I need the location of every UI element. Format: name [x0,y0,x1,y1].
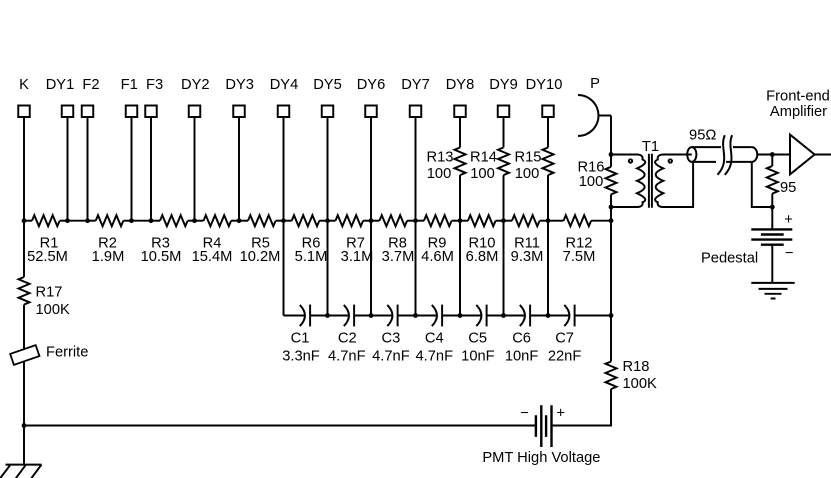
junction F3/bus [149,218,154,223]
node DY3 (PMT pin) [225,77,254,117]
node DY1 (PMT pin) [46,77,75,117]
T1 polarity dot secondary [669,159,672,162]
svg-text:100: 100 [579,174,604,190]
junction: amplifier input [770,152,775,157]
svg-text:DY9: DY9 [489,77,518,93]
wire DY4 to bus and capacitor row [283,117,285,316]
node K (PMT pin) [18,77,30,117]
capacitor C6 10nF [504,305,549,365]
earth ground (pedestal) [751,283,794,299]
svg-text:Front-end: Front-end [766,89,830,105]
svg-text:C3: C3 [382,331,401,347]
coax break marks [718,135,733,175]
svg-text:100: 100 [470,166,495,182]
svg-text:R13: R13 [427,149,454,165]
svg-text:DY4: DY4 [270,77,299,93]
svg-text:DY7: DY7 [401,77,430,93]
op-amp U1 front-end amplifier [766,89,830,175]
svg-text:+: + [556,406,565,422]
svg-text:22nF: 22nF [548,348,582,364]
node DY10 (PMT pin) [526,77,563,117]
node F3 (PMT pin) [145,77,163,117]
svg-text:5.1M: 5.1M [295,249,328,265]
resistor R4 15.4M [192,215,239,265]
wire coax center to amplifier [757,154,790,156]
resistor 95 [767,155,797,208]
wire R14 to bus and capacitor row [503,175,505,315]
coax cable body [687,147,757,162]
junction capacitor row x=371 [369,313,374,318]
svg-text:F2: F2 [82,77,99,93]
junction: R16/T1 top [609,152,614,157]
resistor R13 100 [427,148,466,182]
svg-text:R17: R17 [36,285,63,301]
junction F1/bus [129,218,134,223]
junction capacitor row x=548 [546,313,551,318]
svg-text:F3: F3 [146,77,163,93]
resistor R12 7.5M [548,215,611,265]
resistor R6 5.1M [284,215,328,265]
svg-text:Amplifier: Amplifier [770,104,827,120]
resistor R16 100 [578,159,617,194]
T1 polarity dot primary [629,159,632,162]
svg-text:Pedestal: Pedestal [701,251,758,267]
wire to chassis ground [23,426,25,465]
junction DY7/bus [413,218,418,223]
svg-text:C7: C7 [555,331,574,347]
node DY8 (PMT pin) [446,77,475,117]
svg-text:R14: R14 [470,149,497,165]
svg-text:DY6: DY6 [357,77,386,93]
wire amplifier output [815,154,831,156]
node DY9 (PMT pin) [489,77,518,117]
svg-text:100K: 100K [36,302,71,318]
svg-text:−: − [785,246,794,262]
resistor R2 1.9M [88,215,132,265]
junction capacitor row x=503.5 [501,313,506,318]
svg-text:4.7nF: 4.7nF [328,348,366,364]
capacitor C3 4.7nF [371,305,416,365]
svg-text:52.5M: 52.5M [27,249,68,265]
node DY6 (PMT pin) [357,77,386,117]
resistor R18 100K [606,359,658,392]
transformer T1 primary winding [611,155,645,208]
capacitor C5 10nF [460,305,504,365]
resistor R3 10.5M [141,215,195,265]
junction DY2/bus [192,218,197,223]
node DY4 (PMT pin) [270,77,299,117]
junction capacitor row x=415.5 [413,313,418,318]
wire R15 to bus and capacitor row [547,175,549,315]
wire DY5 to bus and capacitor row [327,117,329,316]
svg-text:3.3nF: 3.3nF [282,348,320,364]
resistor R7 3.1M [328,215,374,265]
node F1 (PMT pin) [121,77,138,117]
junction DY10/bus [546,218,551,223]
svg-text:4.7nF: 4.7nF [372,348,410,364]
battery: PMT High Voltage [482,405,600,466]
wire P to T1 [598,115,611,117]
junction capacitor row x=327.5 [325,313,330,318]
junction capacitor row x=460 [458,313,463,318]
svg-text:DY10: DY10 [526,77,563,93]
wire DY2 to bus [194,117,196,221]
svg-text:DY1: DY1 [46,77,75,93]
svg-text:95: 95 [780,180,796,196]
wire R17 to bottom node [23,305,25,426]
capacitor C4 4.7nF [416,305,461,365]
resistor R1 52.5M [24,215,68,265]
svg-text:9.3M: 9.3M [511,249,544,265]
wire K to bus [23,117,25,221]
junction: T1 bottom [609,205,614,210]
svg-text:C2: C2 [338,331,357,347]
resistor R9 4.6M [416,215,461,265]
wire DY7 to bus and capacitor row [415,117,417,316]
wire bus F1-F3 [132,220,152,222]
resistor R14 100 [470,148,509,182]
svg-text:DY3: DY3 [225,77,254,93]
node F2 (PMT pin) [82,77,100,117]
svg-text:100K: 100K [623,376,658,392]
wire DY3 to bus [238,117,240,221]
svg-text:100: 100 [427,166,452,182]
svg-text:C5: C5 [468,331,487,347]
junction: bottom-left node [22,423,27,428]
resistor R5 10.2M [239,215,284,265]
node DY2 (PMT pin) [181,77,210,117]
transformer T1 secondary winding [655,155,693,208]
node P (anode) [578,76,600,136]
junction DY4/bus [281,218,286,223]
junction: pedestal node [770,205,775,210]
junction DY6/bus [369,218,374,223]
wire coax shield to pedestal node [752,162,773,207]
junction P-line/bus [609,218,614,223]
svg-text:15.4M: 15.4M [192,249,233,265]
wire R18 to HV battery [552,389,612,425]
svg-text:PMT High Voltage: PMT High Voltage [482,450,600,466]
svg-text:100: 100 [515,166,540,182]
svg-text:3.7M: 3.7M [382,249,415,265]
wire DY1 to bus [67,117,69,221]
battery: Pedestal [701,207,793,283]
svg-text:T1: T1 [642,139,659,155]
svg-text:C6: C6 [512,331,531,347]
wire DY8 to R13 [459,117,461,148]
resistor R11 9.3M [504,215,549,265]
junction DY8/bus [458,218,463,223]
wire F1 to bus [131,117,133,221]
svg-text:10.5M: 10.5M [141,249,182,265]
svg-text:Ferrite: Ferrite [46,345,88,361]
resistor R10 6.8M [460,215,504,265]
ferrite bead [10,345,88,365]
svg-text:C4: C4 [425,331,444,347]
svg-text:C1: C1 [291,331,310,347]
capacitor C1 3.3nF [282,305,327,365]
junction DY1/bus [65,218,70,223]
wire DY10 to R15 [547,117,549,148]
svg-text:4.6M: 4.6M [421,249,454,265]
transformer T1 core [649,154,652,208]
junction DY9/bus [501,218,506,223]
svg-text:DY8: DY8 [446,77,475,93]
junction F2/bus [85,218,90,223]
svg-text:10nF: 10nF [505,348,539,364]
wire bottom return [24,425,536,427]
svg-text:10nF: 10nF [461,348,495,364]
svg-text:−: − [520,406,529,422]
wire K branch down [23,221,25,277]
svg-text:95Ω: 95Ω [689,128,716,144]
resistor R15 100 [515,148,554,182]
svg-text:DY2: DY2 [181,77,210,93]
svg-text:6.8M: 6.8M [466,249,499,265]
svg-text:+: + [784,212,793,228]
wire bus DY1-F2 [68,220,88,222]
junction capacitor row x=611.0 [609,313,614,318]
wire F2 to bus [87,117,89,221]
svg-text:DY5: DY5 [313,77,342,93]
svg-text:K: K [19,77,29,93]
svg-text:R15: R15 [515,149,542,165]
chassis ground (signal ground) [0,465,42,478]
capacitor C7 22nF [548,305,611,365]
resistor R17 100K [19,277,71,318]
svg-text:R18: R18 [623,359,650,375]
junction DY3/bus [237,218,242,223]
resistor R8 3.7M [371,215,416,265]
svg-text:1.9M: 1.9M [92,249,125,265]
svg-text:10.2M: 10.2M [240,249,281,265]
node DY7 (PMT pin) [401,77,430,117]
svg-text:3.1M: 3.1M [341,249,374,265]
junction K/bus [22,218,27,223]
capacitor C2 4.7nF [328,305,372,365]
svg-text:F1: F1 [121,77,138,93]
wire R16 to bus, cap row and R18 [610,194,612,361]
wire R13 to bus and capacitor row [459,175,461,315]
svg-text:P: P [590,76,600,92]
wire F3 to bus [150,117,152,221]
node DY5 (PMT pin) [313,77,342,117]
wire DY6 to bus and capacitor row [370,117,372,316]
wire DY9 to R14 [503,117,505,148]
svg-text:7.5M: 7.5M [563,249,596,265]
svg-text:4.7nF: 4.7nF [416,348,454,364]
junction DY5/bus [325,218,330,223]
